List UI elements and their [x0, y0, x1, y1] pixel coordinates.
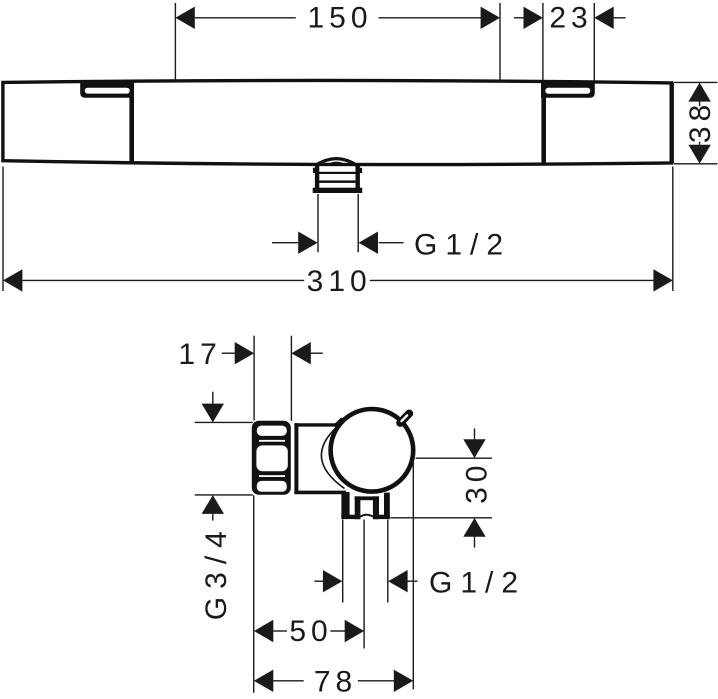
svg-text:23: 23: [549, 2, 592, 35]
svg-text:17: 17: [178, 338, 221, 371]
svg-text:G1/2: G1/2: [429, 567, 526, 600]
svg-text:G1/2: G1/2: [414, 229, 511, 262]
svg-text:38: 38: [684, 100, 717, 143]
svg-text:30: 30: [461, 461, 494, 504]
svg-text:150: 150: [307, 2, 372, 35]
svg-text:G3/4: G3/4: [200, 523, 233, 620]
svg-text:50: 50: [289, 615, 332, 648]
svg-text:78: 78: [314, 665, 357, 698]
svg-text:310: 310: [307, 265, 372, 298]
